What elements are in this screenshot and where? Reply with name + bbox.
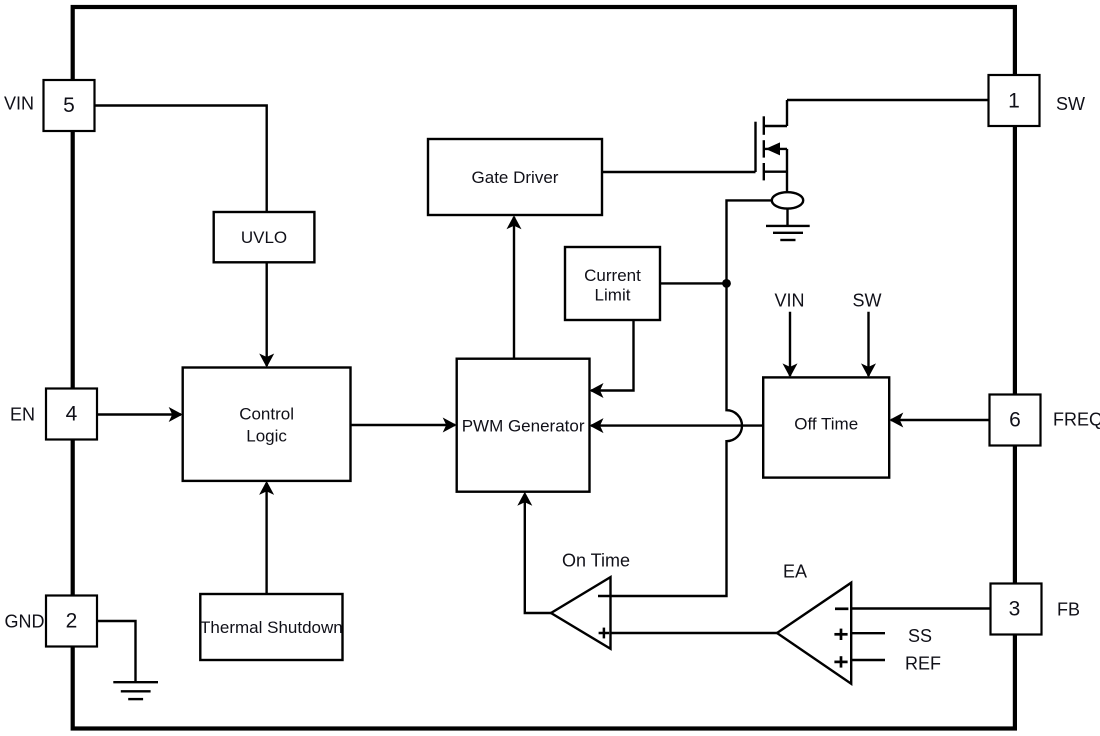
svg-text:FB: FB [1057, 600, 1080, 620]
svg-text:EA: EA [783, 562, 807, 582]
svg-text:SW: SW [1056, 94, 1085, 114]
wire pin5 to UVLO [95, 106, 267, 213]
wire EN to Control Logic [97, 413, 181, 415]
svg-text:Control: Control [239, 405, 294, 424]
svg-text:Off Time: Off Time [794, 415, 858, 434]
svg-text:Current: Current [584, 266, 641, 285]
svg-text:SW: SW [853, 291, 882, 311]
wire PWM Generator to Gate Driver [513, 217, 515, 359]
svg-text:GND: GND [5, 612, 45, 632]
svg-text:5: 5 [63, 94, 75, 117]
wire Current Limit to junction [660, 282, 727, 284]
wire EA SS input [851, 632, 885, 634]
wire FB to EA inverting input [851, 607, 990, 609]
wire Control Logic to PWM Generator [351, 424, 456, 426]
arrow SW into Off Time [867, 312, 869, 376]
pin 1 (SW) [989, 75, 1040, 126]
pin 6 (FREQ) [990, 395, 1041, 446]
svg-text:Gate Driver: Gate Driver [472, 168, 559, 187]
svg-text:On Time: On Time [562, 551, 630, 571]
block Gate Driver [428, 139, 602, 215]
block Current Limit [565, 247, 660, 320]
wire EA output to On Time non-inverting input [611, 632, 778, 634]
svg-text:6: 6 [1009, 409, 1021, 432]
block Thermal Shutdown [200, 594, 342, 660]
transistor Q1 (power NMOS) [756, 100, 788, 192]
svg-text:4: 4 [66, 403, 78, 426]
svg-text:SS: SS [908, 626, 932, 646]
pin 4 (EN) [46, 389, 97, 440]
svg-text:Logic: Logic [246, 427, 287, 446]
block Off Time [763, 377, 889, 477]
svg-text:EN: EN [10, 405, 35, 425]
svg-text:VIN: VIN [774, 291, 804, 311]
wire Off Time to PWM Generator [591, 424, 763, 426]
wire Current Limit to PWM Generator [591, 320, 634, 391]
ground symbol at power stage [766, 226, 810, 240]
pin 5 (VIN) [44, 80, 95, 131]
arrow VIN into Off Time [789, 312, 791, 376]
wire Gate Driver to MOSFET gate [602, 171, 756, 173]
pin 3 (FB) [991, 584, 1042, 635]
block PWM Generator [457, 359, 590, 492]
svg-text:FREQ: FREQ [1053, 410, 1100, 430]
pin 2 (GND) [46, 596, 97, 647]
current sense element [786, 209, 788, 226]
wire Thermal Shutdown to Control Logic [265, 483, 267, 594]
block Control Logic [183, 368, 351, 481]
junction dot [722, 279, 731, 288]
wire UVLO to Control Logic [266, 262, 268, 366]
wire On Time output to PWM Generator [525, 494, 551, 613]
svg-text:REF: REF [905, 654, 941, 674]
wire sense node to On Time inverting input (with hop) [611, 200, 772, 596]
wire GND pin to ground [97, 621, 136, 681]
wire EA REF input [851, 659, 885, 661]
svg-text:UVLO: UVLO [241, 228, 287, 247]
wire drain to SW pin [787, 99, 989, 101]
ground symbol at GND pin [113, 682, 158, 699]
block UVLO [214, 212, 315, 262]
svg-text:VIN: VIN [4, 94, 34, 114]
svg-text:3: 3 [1009, 598, 1021, 621]
body diode arrow of Q1 [766, 142, 781, 155]
svg-text:Limit: Limit [595, 286, 631, 305]
svg-text:1: 1 [1008, 90, 1020, 113]
wire FREQ to Off Time [891, 419, 990, 421]
svg-text:PWM Generator: PWM Generator [462, 417, 585, 436]
svg-text:2: 2 [66, 610, 78, 633]
op-amp EA [777, 583, 851, 684]
comparator On Time [551, 577, 611, 649]
svg-text:Thermal Shutdown: Thermal Shutdown [200, 618, 343, 637]
